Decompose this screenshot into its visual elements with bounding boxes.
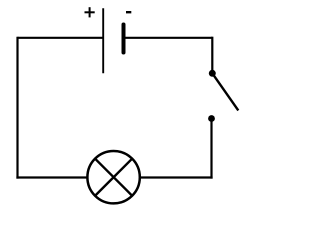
battery B1: negative plate (short thick): [122, 25, 126, 53]
switch S1: top contact node: [209, 70, 216, 77]
battery label: + (positive terminal): [85, 7, 95, 17]
battery B1: positive plate (long thin): [102, 8, 104, 73]
lamp L1: bulb circle: [87, 151, 139, 203]
wire: right vertical upper (corner down to switch top contact): [211, 37, 213, 71]
switch S1: bottom contact node: [208, 115, 215, 122]
lamp L1: X cross stroke (top-left to bottom-right): [95, 159, 132, 196]
wire: right vertical lower (switch bottom contact to bottom-right corner): [210, 119, 212, 179]
battery label: - (negative terminal): [126, 11, 131, 13]
switch S1: open blade (lever arm): [212, 73, 238, 110]
wire: top-left horizontal (battery + plate to top-left corner): [18, 37, 104, 39]
wire: top-right horizontal (battery - plate to top-right corner): [124, 37, 213, 39]
wire: left vertical side: [16, 37, 18, 179]
wire: bottom-left horizontal (corner to lamp left terminal): [16, 176, 87, 178]
lamp L1: X cross stroke (top-right to bottom-left): [95, 159, 132, 196]
wire: bottom-right horizontal (corner to lamp right terminal): [140, 176, 213, 178]
